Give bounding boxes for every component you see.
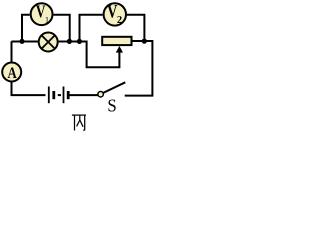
svg-text:2: 2 — [117, 15, 122, 26]
battery cell1 positive plate — [48, 87, 50, 104]
ammeter A — [2, 63, 21, 82]
wire top lead V1 right — [54, 15, 70, 40]
battery cell2 positive plate — [63, 87, 65, 104]
caption 丙 — [72, 115, 86, 130]
switch S pivot — [98, 91, 104, 97]
node dot3 V2 left junction — [77, 39, 82, 44]
slider arrow head — [116, 46, 123, 53]
wire battery to switch — [69, 94, 98, 96]
switch S blade — [103, 82, 125, 93]
wire lamp to rheostat slider, down-right-up — [59, 42, 120, 68]
svg-text:A: A — [7, 65, 17, 83]
svg-text:1: 1 — [45, 15, 49, 24]
wire left vertical through ammeter — [12, 41, 46, 95]
wire top lead V2 right — [127, 15, 144, 40]
wire rheostat right lead — [125, 41, 153, 96]
wire top lead V2 left — [80, 15, 103, 40]
node dot2 V1 right junction — [67, 39, 72, 44]
switch S label — [107, 96, 116, 116]
wire lamp row — [12, 41, 38, 43]
svg-text:S: S — [107, 96, 116, 116]
voltmeter V2 — [104, 3, 126, 25]
battery cell1 negative plate — [52, 91, 55, 99]
voltmeter V1 — [31, 3, 53, 25]
rheostat R — [102, 37, 131, 45]
node dot4 V2 right junction — [142, 39, 147, 44]
lamp X1 — [39, 33, 58, 52]
wire top lead V1 left — [22, 15, 30, 40]
battery cell2 negative plate — [67, 91, 70, 99]
node dot1 V1 left junction — [19, 39, 24, 44]
battery inter-cell dash — [58, 94, 61, 96]
